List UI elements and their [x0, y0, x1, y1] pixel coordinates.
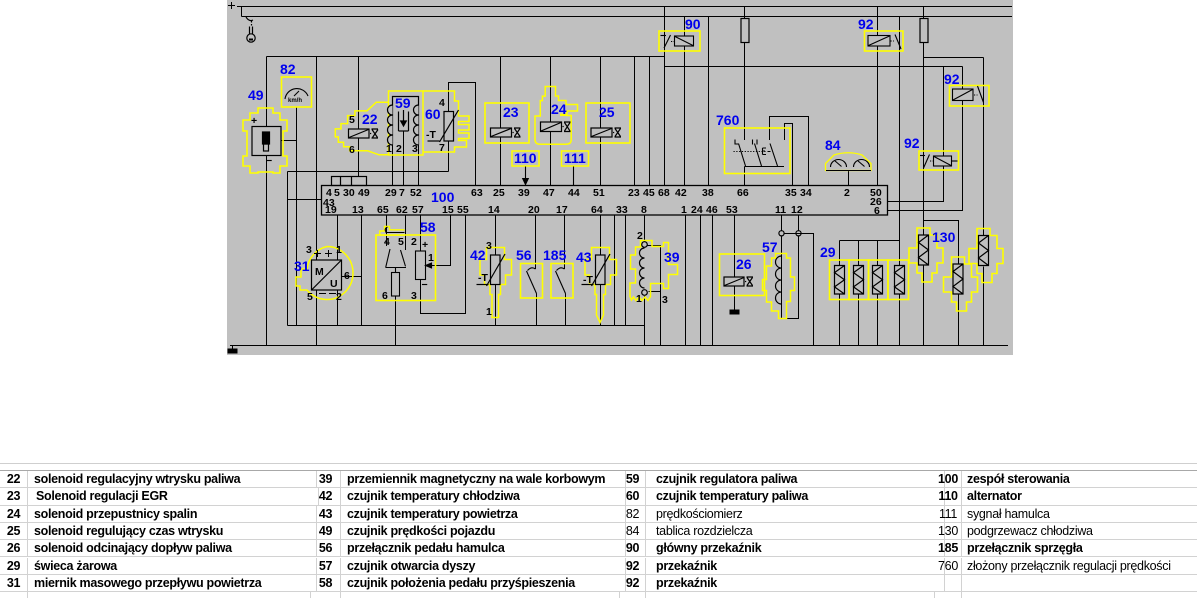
svg-text:6: 6	[344, 270, 350, 282]
wire pin6 line y=210 up to rail66 corner relay92b coil	[888, 67, 963, 211]
fuel temperature sensor 60 symbol	[428, 110, 459, 142]
wire 24 feed x=550.3 rail to pin47	[550, 57, 552, 186]
wire 31 pin6 branch y=276	[342, 276, 362, 278]
wire 39 loop down to ground bus	[660, 292, 662, 346]
wire glowplug1 bottom	[839, 294, 841, 346]
svg-text:110: 110	[514, 150, 537, 166]
svg-text:49: 49	[248, 87, 264, 103]
svg-text:58: 58	[420, 219, 436, 235]
svg-text:+: +	[251, 115, 257, 127]
wire bus325 drop to ground bus at x=644.5	[644, 326, 646, 346]
svg-text:2: 2	[637, 230, 643, 242]
wire pin64 to sensor43	[600, 216, 602, 256]
svg-text:5: 5	[307, 291, 313, 303]
composite switch 760	[725, 128, 791, 174]
svg-text:34: 34	[800, 187, 812, 199]
svg-text:2: 2	[396, 143, 402, 155]
wire pin x=614.8	[614, 216, 616, 326]
wire ground bus y=345	[230, 345, 1008, 347]
svg-text:3: 3	[306, 244, 312, 256]
wire relay90 coil bottom to pin42	[684, 46, 686, 185]
svg-text:2: 2	[844, 187, 850, 199]
svg-text:23: 23	[503, 104, 519, 120]
coolant heater 130 element B	[944, 257, 978, 311]
wire 25 feed x=600.8 rail to pin51	[600, 57, 602, 186]
wire pin19 to 31 pin1	[337, 216, 339, 261]
wire glowplug3 bottom	[877, 294, 879, 346]
svg-text:+: +	[422, 239, 428, 251]
wire 58 resistor bottom to ground bus	[395, 296, 397, 346]
accelerator pedal position sensor 58	[376, 227, 436, 301]
svg-text:130: 130	[932, 229, 956, 245]
wire relay92b blade down to heater130C x=983.5	[983, 58, 985, 236]
solenoid 22 with sensors 59 60 highlight	[335, 91, 469, 155]
wire pin14 to sensor42	[495, 216, 497, 256]
coolant temperature sensor 42	[477, 248, 512, 318]
svg-text:26: 26	[736, 256, 752, 272]
svg-text:15: 15	[442, 204, 454, 216]
injection timing solenoid 25	[586, 103, 630, 143]
svg-text:M: M	[315, 266, 324, 278]
wire horiz y=171.5 to x=287	[288, 171, 449, 173]
svg-text:3: 3	[486, 240, 492, 252]
EGR solenoid 23	[485, 103, 529, 143]
wire glowplug4 bottom	[899, 294, 901, 346]
wire 760 to pin66	[744, 167, 746, 186]
wire switch185 bottom	[565, 294, 567, 326]
wire branch to box pin43 y=199.5	[288, 199, 322, 201]
wire heater130C bottom	[983, 267, 985, 346]
svg-text:52: 52	[410, 187, 422, 199]
relay 92 third (middle)	[919, 151, 959, 170]
wire rail y=56	[267, 56, 665, 58]
wire pin23 drop x=634	[634, 57, 636, 186]
svg-text:29: 29	[385, 187, 397, 199]
ground symbol at solenoid 26	[730, 286, 739, 315]
svg-text:13: 13	[352, 204, 364, 216]
coolant heater 130 element C	[969, 229, 1003, 283]
svg-text:6: 6	[874, 205, 880, 217]
wire bus positive y=6	[237, 6, 1012, 8]
svg-text:92: 92	[944, 71, 960, 87]
svg-text:7: 7	[399, 187, 405, 199]
svg-text:59: 59	[395, 95, 411, 111]
blue component number labels	[248, 16, 960, 274]
wire pin46 x=712	[712, 216, 714, 346]
wire sensor42 bottom	[495, 285, 497, 326]
svg-text:−: −	[266, 155, 272, 167]
glow plugs 29	[830, 260, 909, 300]
svg-text:46: 46	[706, 204, 718, 216]
svg-text:5: 5	[334, 187, 340, 199]
battery plus sign	[228, 2, 235, 9]
svg-text:100: 100	[431, 189, 455, 205]
wire pin26 line y=201.5 up to rail66	[888, 67, 944, 202]
wire relay90 coil top from bus2	[684, 17, 686, 37]
air temperature sensor 43	[582, 248, 617, 323]
wire 760 out to pin35	[785, 124, 793, 186]
wire pin65 to 58 pin4	[386, 216, 388, 247]
wire pin11 to connector	[781, 216, 783, 231]
wire 57 branch to ground x=813.8	[785, 234, 814, 346]
wire 59 pin1 to box pin29	[392, 145, 394, 186]
fuse F1	[741, 19, 749, 43]
svg-text:92: 92	[858, 16, 874, 32]
svg-text:42: 42	[470, 247, 486, 263]
svg-text:65: 65	[377, 204, 389, 216]
svg-text:1: 1	[636, 293, 642, 305]
wire pin53 to solenoid26	[734, 216, 736, 278]
svg-text:39: 39	[664, 249, 680, 265]
svg-text:53: 53	[726, 204, 738, 216]
wire 23 feed x=500.7 rail to pin25	[500, 57, 502, 186]
wire 59 pin3 to box pin52	[418, 145, 420, 186]
wire bus y=325	[288, 325, 645, 327]
wire pin20 to switch56	[535, 216, 537, 270]
svg-text:km/h: km/h	[288, 98, 302, 104]
relay 90	[659, 31, 700, 51]
wire pin24 x=700.9	[700, 216, 702, 346]
brake signal node 111	[562, 151, 589, 185]
box100 bottom row pin labels	[325, 204, 803, 216]
wire pin57 to 58 pin2	[420, 216, 422, 252]
svg-text:4: 4	[384, 236, 390, 248]
wire glowplug1 top	[839, 241, 841, 266]
wire pin62 to 58 pin5	[405, 216, 407, 251]
wire glowplug2 bottom	[858, 294, 860, 346]
svg-text:185: 185	[543, 247, 567, 263]
wire pin13 x=361.6 with 31 pin6 branch	[361, 216, 363, 326]
wire 84 to pin2	[848, 171, 850, 186]
speed sensor 49	[243, 108, 287, 173]
wire pin12 to connector	[798, 216, 800, 231]
wire 31 pin2 down	[337, 290, 339, 326]
wire branch 130B y=220	[924, 221, 959, 264]
fuel regulator sensor 59 symbol	[388, 97, 419, 146]
exhaust flap solenoid 24	[535, 87, 578, 145]
svg-text:17: 17	[556, 204, 568, 216]
control unit U100 box	[322, 186, 888, 216]
svg-text:−: −	[422, 279, 428, 291]
wire glow rail y=240.4	[840, 240, 900, 242]
wire 22 feed x=358.4 rail through 22 to pin49 bracket	[358, 57, 360, 177]
clutch switch 185	[551, 264, 573, 299]
wire 59 pin2 to box pin7	[403, 131, 405, 185]
svg-text:1: 1	[386, 143, 392, 155]
wire 39 bottom to ground bus	[644, 296, 646, 346]
svg-text:24: 24	[551, 101, 567, 117]
wire glowplug2 top	[858, 241, 860, 266]
ground symbol main	[228, 345, 237, 353]
svg-text:7: 7	[439, 142, 445, 154]
svg-text:4: 4	[439, 97, 445, 109]
wire heater130A bottom	[923, 265, 925, 346]
wire pin8 to 39 pin2	[644, 216, 646, 242]
wire 49 side branch y=140.7	[282, 140, 297, 142]
crankshaft magnetic transducer 39	[630, 241, 678, 301]
svg-text:19: 19	[325, 204, 337, 216]
svg-text:63: 63	[471, 187, 483, 199]
fuel cutoff solenoid 26	[720, 254, 765, 296]
wire glowplug3 top	[877, 241, 879, 266]
svg-text:3: 3	[662, 294, 668, 306]
svg-text:57: 57	[762, 239, 778, 255]
wire 760 out to pin34	[770, 117, 809, 186]
wire 49 feed x=266.5 rail to ground bus	[266, 57, 268, 346]
svg-text:U: U	[330, 278, 338, 290]
svg-text:-T: -T	[583, 274, 593, 286]
svg-text:45: 45	[643, 187, 655, 199]
wire 31 pin3 x=316.8 rail to box	[316, 57, 318, 261]
svg-text:55: 55	[457, 204, 469, 216]
svg-text:1: 1	[486, 306, 492, 318]
svg-text:760: 760	[716, 112, 740, 128]
wire x=287 down to bus325	[287, 172, 289, 326]
wire 82 down x=296.5	[296, 107, 298, 326]
svg-text:82: 82	[280, 61, 296, 77]
wire heater130B bottom	[958, 295, 960, 346]
svg-text:30: 30	[343, 187, 355, 199]
svg-text:29: 29	[820, 244, 836, 260]
svg-text:14: 14	[488, 204, 500, 216]
svg-text:44: 44	[568, 187, 580, 199]
speedometer 82	[282, 77, 312, 107]
alternator node 110	[512, 151, 539, 185]
mass air flow meter 31	[296, 247, 353, 300]
svg-text:51: 51	[593, 187, 605, 199]
svg-text:68: 68	[658, 187, 670, 199]
wire fuse1 top x=744.5	[744, 7, 746, 19]
svg-text:38: 38	[702, 187, 714, 199]
box100 top row pin labels	[323, 187, 882, 217]
svg-text:23: 23	[628, 187, 640, 199]
svg-text:84: 84	[825, 137, 841, 153]
svg-text:35: 35	[785, 187, 797, 199]
connector bracket pins 4/5/30/49	[332, 177, 367, 186]
svg-text:25: 25	[493, 187, 505, 199]
svg-text:6: 6	[349, 144, 355, 156]
svg-text:11: 11	[775, 204, 786, 216]
svg-text:1: 1	[428, 252, 434, 264]
svg-text:-T: -T	[478, 272, 488, 284]
black pin number labels	[251, 97, 668, 318]
wire 58 pin3 loop to pin55	[421, 216, 466, 314]
svg-text:5: 5	[349, 114, 355, 126]
svg-text:39: 39	[518, 187, 530, 199]
wire pin38 x=708.6 from bus2	[708, 17, 710, 186]
svg-text:24: 24	[691, 204, 703, 216]
wire bus2 y=16	[242, 16, 1013, 18]
svg-text:90: 90	[685, 16, 701, 32]
wire 57 bottom loop	[782, 236, 799, 319]
diagram background panel	[227, 0, 1013, 355]
wire glowplug4 top	[899, 241, 901, 266]
svg-text:20: 20	[528, 204, 540, 216]
svg-text:47: 47	[543, 187, 555, 199]
solenoid 22 symbol	[349, 129, 379, 138]
svg-text:42: 42	[675, 187, 687, 199]
svg-text:111: 111	[564, 150, 586, 166]
wire relay92a coil bottom to pin50	[877, 46, 879, 185]
wire pin1 x=685.7	[685, 216, 687, 346]
wire jog y=57 fuse2 to relay92b	[924, 43, 984, 58]
wire 60 pin4 up and over to box pin63	[449, 83, 476, 186]
wire pin15 to 58 wiper	[428, 216, 451, 266]
wire pin33 x=625	[625, 216, 627, 326]
nozzle opening sensor 57	[763, 231, 802, 319]
wire bus drop x=241	[241, 7, 243, 17]
svg-text:25: 25	[599, 104, 615, 120]
wire relay90 contact column x=664.5 bus to pin68	[664, 7, 666, 186]
svg-text:33: 33	[616, 204, 628, 216]
svg-text:8: 8	[641, 204, 647, 216]
svg-text:6: 6	[382, 290, 388, 302]
wire pin17 to switch185	[564, 216, 566, 270]
relay 92 first (top)	[865, 31, 904, 51]
wire 31 pin5 down	[316, 290, 318, 346]
wire fuse2 down through relay92c to heater130A	[923, 43, 925, 235]
coolant heater 130 element A	[909, 228, 943, 282]
wire 60 pin7 down x=448.5	[448, 141, 450, 172]
svg-text:22: 22	[362, 111, 378, 127]
relay 92 second (right)	[950, 86, 990, 107]
wire 39 right loop	[648, 246, 661, 292]
svg-text:1: 1	[681, 204, 687, 216]
fuse F2	[920, 19, 928, 43]
wire glowplug feed x=899.5 bus2 to glow rail	[899, 17, 901, 241]
ignition key switch	[246, 17, 255, 42]
wire fuse2 top x=923.5	[923, 7, 925, 19]
svg-text:3: 3	[411, 290, 417, 302]
svg-text:-T: -T	[426, 129, 436, 141]
svg-text:62: 62	[396, 204, 408, 216]
svg-text:56: 56	[516, 247, 532, 263]
wire rail y=66	[665, 66, 963, 68]
svg-text:2: 2	[411, 236, 417, 248]
svg-text:57: 57	[412, 204, 424, 216]
svg-text:2: 2	[336, 291, 342, 303]
svg-text:43: 43	[576, 249, 592, 265]
svg-text:64: 64	[591, 204, 603, 216]
instrument panel 84	[826, 153, 872, 171]
svg-text:66: 66	[737, 187, 749, 199]
wire relay92a coil top to bus x=877.8	[877, 7, 879, 36]
svg-text:31: 31	[294, 258, 310, 274]
svg-text:12: 12	[791, 204, 803, 216]
svg-text:49: 49	[358, 187, 370, 199]
brake pedal switch 56	[521, 264, 543, 299]
wire pin45 drop x=649.9	[649, 57, 651, 186]
wire fuse1 to 760	[744, 43, 746, 141]
wire 57 coil column	[781, 236, 783, 319]
svg-text:5: 5	[398, 236, 404, 248]
wire switch56 bottom	[536, 294, 538, 326]
svg-text:3: 3	[412, 143, 418, 155]
wire sensor43 bottom	[600, 285, 602, 326]
svg-text:92: 92	[904, 135, 920, 151]
svg-text:1: 1	[336, 244, 342, 256]
